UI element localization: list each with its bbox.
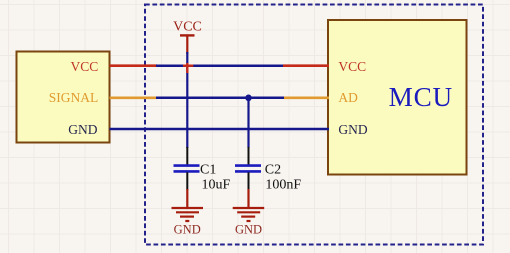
ground symbol GND (under C2) [233,208,265,236]
capacitor C1 [174,147,200,190]
junction marker (red) at VCC node [183,63,193,73]
wire AD net: blue middle segment [156,97,285,100]
svg-text:GND: GND [338,122,367,137]
svg-text:GND: GND [68,122,97,137]
svg-text:C1: C1 [200,162,216,177]
svg-text:GND: GND [235,222,262,236]
wire AD net: orange pin stub into MCU [284,97,329,100]
capacitor C2 [235,147,261,190]
wire VCC net: red pin stub from sensor [110,64,158,67]
MCU block U? (right sheet symbol) [328,20,467,175]
wire GND net: blue line sensor to MCU [110,128,330,131]
svg-text:AD: AD [338,90,358,105]
wire VCC net: blue middle segment [156,64,284,67]
wire VCC net: red pin stub into MCU [283,64,329,67]
svg-text:MCU: MCU [389,82,453,112]
junction dot on AD net at C2 [245,95,252,102]
svg-text:GND: GND [174,222,201,236]
svg-text:10uF: 10uF [202,177,231,192]
svg-text:VCC: VCC [338,59,366,74]
svg-text:C2: C2 [265,162,281,177]
sensor block U? (left sheet symbol) [17,52,110,143]
dashed selection frame around circuit [145,5,483,245]
wire C1 to ground (red) [186,189,188,207]
svg-text:VCC: VCC [71,59,99,74]
VCC power port symbol [173,20,202,55]
svg-text:VCC: VCC [173,20,202,35]
svg-text:SIGNAL: SIGNAL [49,90,99,105]
svg-text:100nF: 100nF [265,177,301,192]
wire C2 branch: blue vertical from AD net down [247,98,249,148]
wire C2 to ground (red) [247,189,249,207]
ground symbol GND (under C1) [172,208,204,236]
wire C1 branch: blue vertical from VCC net down [186,52,188,148]
wire AD net: orange pin stub from sensor SIGNAL [110,97,158,100]
